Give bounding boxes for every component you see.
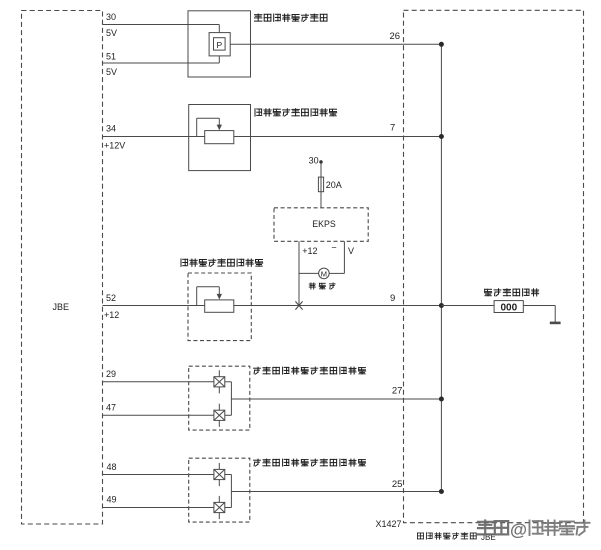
wire terminal30 to fuse	[320, 162, 322, 177]
splice X on wire 9	[295, 301, 302, 309]
connector JBE (left junction box, dashed)	[22, 11, 103, 525]
wire 25 (hall output)	[231, 491, 441, 493]
potentiometer wiper loop	[197, 287, 222, 306]
svg-text:7: 7	[390, 123, 395, 134]
wire 9 (sensor output)	[234, 305, 442, 307]
svg-text:25: 25	[392, 479, 403, 490]
wire 30 (5V)	[103, 25, 220, 33]
svg-text:M: M	[321, 269, 327, 278]
wire 7 (sensor output)	[234, 136, 442, 138]
watermark 头条@飞哥学车	[478, 520, 590, 540]
junction node 26	[439, 42, 444, 47]
svg-text:26: 26	[390, 31, 401, 42]
label 制冷剂压力传感器	[255, 14, 328, 21]
wire fuse to EKPS	[320, 192, 322, 208]
svg-text:+12: +12	[104, 310, 119, 320]
terminal 30 feed	[319, 160, 322, 163]
svg-text:48: 48	[107, 462, 117, 472]
fuse 20A	[318, 177, 323, 192]
wire 26 (sensor output)	[230, 43, 441, 45]
refrigerant pressure sensor outer box	[188, 11, 251, 77]
svg-text:20A: 20A	[326, 180, 342, 190]
svg-text:+12V: +12V	[104, 141, 125, 151]
wire 47	[103, 414, 214, 416]
label 燃油泵	[309, 283, 335, 289]
control unit EKPS (dashed box)	[274, 208, 368, 242]
svg-text:47: 47	[106, 403, 116, 413]
wire 29	[103, 381, 214, 383]
hall output connector	[225, 475, 232, 508]
svg-text:+12: +12	[302, 246, 317, 256]
junction node 25	[439, 489, 444, 494]
pressure sensing element inner box P	[214, 38, 226, 50]
potentiometer element (left fuel sender)	[205, 131, 234, 144]
svg-text:V: V	[348, 246, 354, 256]
svg-text:9: 9	[390, 293, 395, 304]
wire pump right	[329, 272, 344, 274]
label 右后车窗升降电机霍尔传感器	[254, 459, 366, 466]
wire bus to fuse resistor	[441, 305, 494, 307]
svg-text:52: 52	[106, 293, 116, 303]
svg-text:30: 30	[106, 12, 116, 22]
label 右侧燃油油位传感器	[181, 259, 263, 266]
wire resistor to ground	[523, 306, 555, 323]
wire 34 (+12V)	[103, 136, 205, 138]
wire 51 (5V)	[103, 56, 220, 63]
hall element 3 (square with X)	[214, 463, 225, 486]
junction node 9	[439, 303, 444, 308]
wire 49	[103, 507, 214, 509]
hall element 2 (square with X)	[214, 404, 225, 427]
motor fuel pump M	[319, 268, 330, 279]
wire 27 (hall output)	[231, 398, 441, 400]
junction node 27	[439, 397, 444, 402]
hall output connector	[225, 382, 232, 416]
svg-text:49: 49	[107, 495, 117, 505]
ground	[550, 322, 561, 325]
svg-text:000: 000	[500, 303, 517, 314]
svg-text:P: P	[216, 40, 222, 50]
svg-text:29: 29	[106, 369, 116, 379]
wire 52 (+12)	[103, 305, 205, 307]
label 左后车窗升降电机霍尔传感器	[254, 367, 366, 374]
label 贴片保险电阻	[485, 289, 539, 296]
wire 48	[103, 474, 214, 476]
right rear window motor hall sensor box (dashed)	[189, 458, 250, 522]
svg-text:JBE: JBE	[53, 302, 70, 312]
svg-text:5V: 5V	[106, 67, 117, 77]
bus wire (vertical, right box)	[440, 44, 442, 491]
svg-text:−: −	[331, 243, 336, 253]
wire pump left	[299, 272, 319, 274]
svg-text:27: 27	[392, 386, 403, 397]
hall element 4 (square with X)	[214, 496, 225, 519]
right fuel level sensor box (dashed)	[188, 273, 251, 341]
pressure sensing element (box)	[209, 33, 230, 56]
junction box electronics JBE (right dashed box)	[404, 10, 584, 522]
label 接线盒电子装置	[418, 533, 477, 540]
hall element 1 (square with X)	[214, 370, 225, 393]
svg-text:@: @	[510, 520, 527, 540]
chip fuse resistor 000	[494, 301, 523, 314]
label 左侧燃油油位传感器	[255, 109, 337, 116]
svg-text:X1427: X1427	[376, 519, 402, 529]
svg-text:34: 34	[106, 124, 116, 134]
junction node 7	[439, 134, 444, 139]
pin V wire (EKPS right pin)	[343, 241, 345, 273]
svg-text:30: 30	[309, 156, 319, 166]
potentiometer element (right fuel sender)	[205, 300, 234, 312]
svg-text:51: 51	[106, 52, 116, 62]
svg-text:5V: 5V	[106, 28, 117, 38]
potentiometer wiper loop	[197, 118, 222, 136]
svg-text:EKPS: EKPS	[312, 219, 336, 229]
left fuel level sensor box	[189, 105, 251, 171]
pin +12 wire (EKPS left pin down to splice)	[298, 241, 300, 305]
left rear window motor hall sensor box (dashed)	[189, 366, 250, 430]
